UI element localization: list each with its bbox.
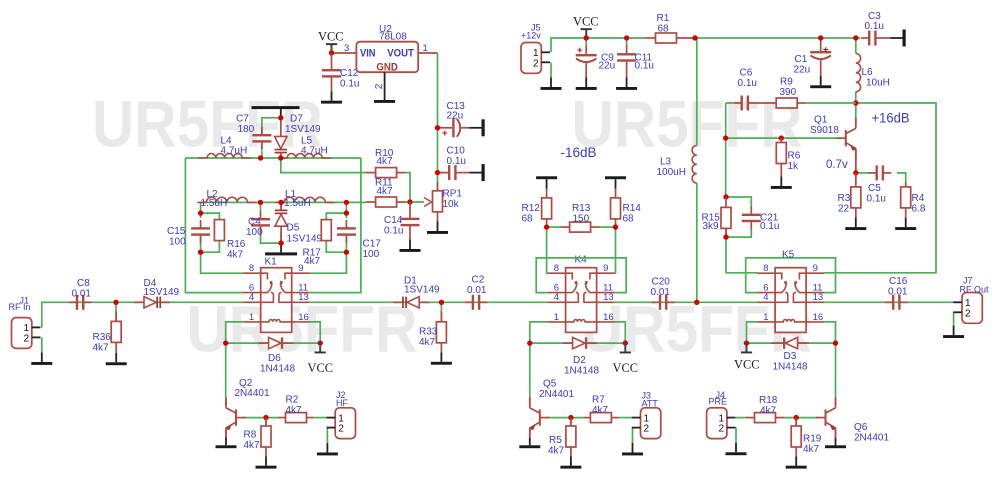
junction node C1 rail: [818, 35, 823, 40]
svg-text:C16: C16: [889, 276, 908, 287]
svg-text:HF: HF: [336, 398, 348, 408]
wire J5 pin1 to rail: [551, 38, 645, 52]
vcc symbol top rail: [573, 14, 599, 39]
ground J3 pin2: [622, 443, 643, 455]
wire J4 pin1 to R18: [736, 417, 746, 419]
svg-text:10k: 10k: [443, 199, 460, 210]
svg-text:Q6: Q6: [854, 422, 868, 433]
svg-text:+: +: [823, 44, 829, 55]
inductor L4 4.7uH: [198, 136, 251, 158]
svg-text:Q5: Q5: [543, 379, 557, 390]
svg-text:S9018: S9018: [810, 125, 839, 136]
svg-text:+12v: +12v: [521, 31, 541, 41]
ground J2 pin2: [317, 443, 338, 455]
svg-text:D2: D2: [573, 355, 586, 366]
connector J7 RF Out: [953, 276, 989, 324]
svg-text:R12: R12: [522, 203, 541, 214]
wire U2 pin3: [334, 52, 356, 54]
svg-text:4k7: 4k7: [548, 446, 565, 457]
transistor Q2 2N4401: [225, 378, 270, 439]
ground R12 top: [536, 176, 557, 188]
svg-text:K5: K5: [782, 250, 795, 261]
capacitor C1 22u polarized: [794, 38, 832, 76]
svg-text:VCC: VCC: [318, 29, 344, 44]
svg-text:R6: R6: [788, 151, 801, 162]
svg-text:1.5uH: 1.5uH: [284, 198, 311, 209]
svg-text:10uH: 10uH: [866, 78, 890, 89]
wire U2 pin1: [418, 52, 437, 54]
svg-text:D7: D7: [290, 114, 303, 125]
wire C6 left corner down the base column: [726, 103, 733, 197]
svg-text:C17: C17: [363, 238, 382, 249]
svg-text:4k7: 4k7: [803, 444, 820, 455]
wire L6 bottom to amp rail: [855, 92, 857, 104]
ground R36: [106, 353, 127, 365]
capacitor C2 0.01: [465, 275, 488, 310]
svg-text:0.1u: 0.1u: [340, 78, 359, 89]
junction node Q6 base R19: [794, 415, 799, 420]
resistor R16 4k7: [214, 220, 245, 261]
junction node L4 C7 rail: [258, 155, 263, 160]
capacitor C5 0.1u: [867, 165, 892, 204]
junction node R10 R11 RP1: [407, 199, 412, 204]
capacitor C16 0.01: [885, 276, 908, 310]
capacitor C4 100: [246, 211, 270, 238]
junction node L6 bottom amp rail: [853, 100, 858, 105]
capacitor C3 0.1u: [861, 11, 891, 46]
svg-text:R13: R13: [572, 203, 591, 214]
ground J1 pin2: [31, 353, 52, 365]
wire L3 bottom to main line: [696, 183, 698, 302]
svg-text:100: 100: [363, 249, 380, 260]
svg-text:4k7: 4k7: [592, 405, 609, 416]
svg-text:R7: R7: [592, 394, 605, 405]
junction node R14 R13: [613, 224, 618, 229]
svg-text:390: 390: [780, 87, 797, 98]
IC U2 78L08: [356, 24, 418, 74]
svg-text:D6: D6: [268, 353, 281, 364]
wire U2 out vertical: [437, 53, 439, 191]
svg-text:1k: 1k: [788, 161, 800, 172]
svg-text:2N4401: 2N4401: [235, 388, 270, 399]
capacitor C15 100: [167, 220, 210, 247]
ground C11: [616, 78, 637, 90]
resistor R4 6.8: [901, 182, 926, 218]
wire main RF line J1 to K1: [42, 302, 243, 327]
connector J5 +12v: [521, 22, 550, 73]
wire K5 bypass loop pin6 to pin11: [746, 258, 836, 293]
svg-text:1N4148: 1N4148: [773, 361, 808, 372]
inductor L6 10uH vertical: [856, 54, 890, 92]
svg-text:C14: C14: [384, 215, 403, 226]
wire C7 top: [262, 118, 281, 135]
junction node Q2 base R8: [263, 415, 268, 420]
wire R1 junction down to L3: [696, 38, 698, 146]
svg-text:22u: 22u: [599, 61, 616, 72]
svg-text:0.1u: 0.1u: [447, 156, 466, 167]
svg-text:0.7v: 0.7v: [826, 159, 848, 171]
capacitor C7 180: [236, 114, 271, 150]
svg-text:-16dB: -16dB: [561, 144, 597, 160]
ground C13 right: [470, 119, 485, 136]
wire Q6 collector: [835, 343, 837, 398]
wire C10 to RP1 node handled above: [437, 211, 439, 213]
svg-text:4.7uH: 4.7uH: [301, 146, 328, 157]
svg-text:1N4148: 1N4148: [564, 365, 599, 376]
capacitor C13 22u polarized: [438, 101, 470, 139]
wire R15 C21 node bottom: [726, 229, 751, 237]
capacitor C6 0.1u: [733, 68, 757, 111]
wire R19 top: [795, 418, 797, 427]
svg-text:R19: R19: [803, 434, 822, 445]
svg-text:PRE: PRE: [709, 397, 728, 407]
junction node D5 C4 bottom: [278, 240, 283, 245]
ground C12: [321, 91, 342, 103]
resistor R17 4k7: [303, 220, 332, 267]
wire R15 bottom to K5 pin8: [726, 237, 757, 273]
svg-text:UR5FFR: UR5FFR: [572, 87, 803, 161]
wire amp collector rail to K5 pin9: [824, 103, 936, 273]
junction node Q1 base tap: [723, 135, 728, 140]
ground R6: [771, 177, 792, 189]
diode D4 1SV149 varactor: [134, 278, 180, 308]
svg-text:0.01: 0.01: [467, 285, 487, 296]
svg-text:VCC: VCC: [308, 360, 334, 375]
wire R10 right to RP1 node: [406, 173, 411, 202]
wire C5 right corner to R4: [897, 173, 906, 182]
junction node C15 bottom: [198, 250, 203, 255]
transistor Q6 2N4401: [816, 398, 890, 444]
ground R3: [845, 218, 866, 230]
resistor R36 4k7: [93, 312, 122, 354]
wire Q2 base to R8 R2: [243, 417, 279, 419]
wire R36 junction: [115, 302, 117, 322]
svg-text:C4: C4: [248, 217, 261, 228]
ground C9: [576, 78, 597, 90]
svg-text:K4: K4: [575, 255, 588, 266]
svg-text:0.1u: 0.1u: [635, 61, 654, 72]
inductor L1 1.5uH: [275, 189, 334, 209]
svg-text:0.01: 0.01: [651, 287, 671, 298]
wire L6 top: [855, 38, 857, 54]
junction node C15 top: [198, 210, 203, 215]
svg-text:R3: R3: [838, 193, 851, 204]
relay K5: [757, 263, 824, 332]
junction node K4 pin1 Q5: [527, 340, 532, 345]
ground R8: [256, 456, 277, 468]
ground R33: [431, 352, 452, 364]
wire D6 line: [226, 342, 321, 344]
svg-text:1SV149: 1SV149: [287, 234, 323, 245]
svg-text:0.1u: 0.1u: [867, 193, 886, 204]
capacitor C11 0.1u: [617, 45, 654, 78]
diode D3 1N4148 left: [771, 337, 809, 372]
ground R5: [560, 456, 581, 468]
junction node R1 L3: [692, 35, 697, 40]
svg-text:R33: R33: [419, 327, 438, 338]
wire amp collector up: [855, 103, 857, 117]
wire R14 down to K4 pin9: [614, 227, 617, 273]
ground C1: [810, 76, 831, 88]
junction node L6 rail: [853, 35, 858, 40]
transistor Q5 2N4401: [529, 379, 574, 439]
junction node VCC C12: [329, 50, 334, 55]
junction node K5 pin1 VCC: [744, 340, 749, 345]
diode D6 1N4148: [259, 337, 296, 374]
svg-text:ATT: ATT: [642, 398, 659, 408]
svg-text:K1: K1: [265, 257, 278, 268]
ground U2: [374, 91, 395, 103]
svg-text:R1: R1: [657, 13, 670, 24]
svg-text:R14: R14: [623, 203, 642, 214]
wire emitter to C5: [856, 172, 869, 174]
svg-text:C6: C6: [740, 68, 753, 79]
svg-text:6.8: 6.8: [912, 204, 926, 215]
ground J5 pin2: [541, 78, 562, 90]
inductor L2 1.5uH: [197, 189, 256, 209]
junction node Q5 base R5: [568, 415, 573, 420]
svg-text:VCC: VCC: [613, 360, 639, 375]
svg-text:0.1u: 0.1u: [865, 21, 884, 32]
svg-text:0.1u: 0.1u: [384, 225, 403, 236]
junction node C17 rail: [344, 200, 349, 205]
svg-text:VCC: VCC: [573, 14, 599, 29]
wire U2 pin2 gnd: [374, 72, 385, 90]
wire R2 right to J2: [314, 417, 328, 419]
wire K5 pin16 down to D3 Q6: [824, 322, 835, 343]
resistor R33 4k7: [419, 312, 446, 353]
junction node R36 main line: [113, 300, 118, 305]
wire C7 bottom: [261, 151, 263, 159]
ground J7 pin2: [943, 326, 964, 338]
svg-text:C15: C15: [167, 226, 186, 237]
junction node R6 base: [779, 135, 784, 140]
ground C10 right: [470, 164, 485, 181]
wire main RF line K1 to K4: [310, 301, 548, 303]
wire K4 pin16 down to VCC D2: [615, 322, 626, 343]
resistor R3 22: [838, 173, 861, 218]
diode D5 1SV149 varactor vertical up: [275, 202, 323, 244]
transistor Q1 S9018: [810, 115, 857, 173]
svg-text:1: 1: [423, 43, 428, 54]
svg-text:+16dB: +16dB: [872, 109, 910, 125]
junction node C10: [435, 170, 440, 175]
svg-text:100: 100: [169, 236, 186, 247]
svg-text:4k7: 4k7: [93, 342, 110, 353]
wire C4 column: [261, 202, 282, 243]
wire C15 R16 column: [201, 202, 220, 252]
wire J1 pin2 to ground: [41, 337, 43, 352]
svg-text:4k7: 4k7: [244, 440, 261, 451]
junction node D7 L5 rail: [278, 155, 283, 160]
svg-text:78L08: 78L08: [379, 32, 407, 43]
capacitor C14 0.1u: [384, 202, 420, 240]
inductor L3 100uH vertical: [657, 146, 697, 184]
resistor R19 4k7: [791, 418, 822, 457]
connector J2 HF: [327, 390, 356, 439]
inductor L5 4.7uH: [278, 136, 331, 158]
wire Q5 collector: [529, 343, 531, 398]
junction node L3 main line: [694, 300, 699, 305]
resistor R9 390: [756, 76, 856, 108]
svg-text:GND: GND: [376, 62, 398, 74]
resistor R10 4k7: [366, 148, 406, 178]
resistor R12 68: [522, 189, 552, 228]
wire VCC reg input: [334, 52, 337, 54]
svg-text:22: 22: [838, 204, 850, 215]
resistor R14 68: [611, 189, 642, 228]
svg-text:68: 68: [522, 213, 534, 224]
wire R18 right to Q6 base: [785, 417, 819, 419]
wire Q1 emitter down: [855, 151, 857, 182]
junction node R15 top: [723, 194, 728, 199]
svg-text:R16: R16: [227, 239, 246, 250]
svg-text:RF In: RF In: [9, 302, 31, 312]
svg-text:68: 68: [623, 213, 635, 224]
wire R7 right to J3: [619, 417, 633, 419]
wire Q5 base to R5 R7: [547, 417, 584, 419]
svg-text:1N4148: 1N4148: [260, 363, 295, 374]
relay K1: [243, 263, 310, 332]
wire tank bottom right to K1 pin9: [310, 252, 347, 273]
svg-text:0.01: 0.01: [72, 289, 92, 300]
svg-text:1SV149: 1SV149: [404, 285, 440, 296]
wire C17 R17 column: [326, 202, 346, 252]
wire R12 down to K4 pin8: [547, 227, 548, 273]
junction node R15 bottom: [723, 234, 728, 239]
capacitor C9 22u polarized: [576, 45, 615, 78]
wire K1 pin16 down to VCC D6: [310, 322, 321, 343]
wire R1 right to C1 C3 rail: [695, 37, 860, 39]
ground Q5 emitter: [519, 438, 540, 448]
svg-text:R18: R18: [759, 395, 778, 406]
svg-text:D3: D3: [784, 351, 797, 362]
junction node C17 top: [344, 210, 349, 215]
diode D1 1SV149 varactor left: [393, 275, 440, 308]
vcc symbol at D6: [308, 343, 334, 375]
relay K4: [548, 263, 615, 332]
svg-text:VIN: VIN: [360, 48, 376, 60]
svg-text:1.5uH: 1.5uH: [201, 198, 228, 209]
svg-text:100: 100: [246, 227, 263, 238]
resistor R7 4k7: [583, 394, 618, 422]
wire K5 pin1 down to VCC D3: [747, 322, 758, 343]
svg-text:C20: C20: [652, 277, 671, 288]
junction node C7 D7 top: [278, 115, 283, 120]
svg-text:R2: R2: [286, 394, 299, 405]
resistor R11 4k7: [366, 178, 406, 207]
svg-text:VCC: VCC: [734, 357, 760, 372]
junction node R12 R13: [544, 224, 549, 229]
junction node VCC rail: [584, 35, 589, 40]
svg-text:4k7: 4k7: [377, 156, 394, 167]
vcc symbol U2 input: [318, 29, 344, 54]
svg-text:2N4401: 2N4401: [539, 389, 574, 400]
svg-text:2N4401: 2N4401: [854, 433, 889, 444]
svg-text:R5: R5: [549, 435, 562, 446]
ground J4 pin2: [726, 443, 747, 455]
wire R8 top: [265, 418, 267, 427]
ground Q2 emitter: [216, 438, 237, 448]
svg-text:4k7: 4k7: [304, 256, 321, 267]
ground R14 top: [605, 176, 626, 188]
wire middle rail to R11 right: [406, 201, 425, 203]
svg-text:22u: 22u: [794, 64, 811, 75]
ground R4: [895, 218, 916, 230]
wire D2 line: [530, 342, 626, 344]
ground R19: [786, 456, 807, 468]
wire tank upper right vertical to K1 pin11: [310, 158, 361, 293]
svg-text:4k7: 4k7: [377, 186, 394, 197]
svg-text:VOUT: VOUT: [387, 48, 414, 60]
svg-text:180: 180: [238, 124, 255, 135]
junction node D5 rail: [278, 200, 283, 205]
wire K4 pin1 down to D2: [530, 322, 548, 343]
junction node C4 rail: [258, 200, 263, 205]
svg-text:1SV149: 1SV149: [144, 287, 180, 298]
wire R6 top: [780, 138, 782, 142]
junction node D1 R33: [439, 300, 444, 305]
potentiometer RP1 10k: [424, 182, 462, 222]
svg-text:C10: C10: [447, 145, 466, 156]
wire tank input vertical to K1 pin6: [185, 158, 242, 293]
ground C3 right: [891, 30, 906, 47]
svg-text:4k7: 4k7: [286, 405, 303, 416]
diode D7 1SV149 varactor vertical: [275, 114, 321, 158]
wire K4 bypass loop pin6 to pin11: [536, 258, 626, 293]
connector J3 ATT: [632, 391, 661, 439]
svg-text:C8: C8: [77, 278, 90, 289]
wire K1 pin1 down to D6: [226, 322, 243, 343]
resistor R13 150: [547, 203, 616, 232]
svg-text:C2: C2: [472, 275, 485, 286]
wire C9 C11 grounds red upper leads: [586, 38, 626, 45]
svg-text:0.1u: 0.1u: [738, 78, 757, 89]
wire R5 top: [570, 418, 572, 427]
junction node K4 pin16 VCC: [623, 340, 628, 345]
wire J2 pin2 to ground: [326, 427, 328, 443]
wire Q2 collector: [225, 343, 227, 398]
resistor R6 1k: [776, 138, 800, 176]
wire main RF line K4 to K5: [615, 301, 758, 303]
svg-text:R8: R8: [244, 430, 257, 441]
svg-text:100uH: 100uH: [657, 167, 686, 178]
wire J7 pin2 to ground: [953, 312, 955, 326]
svg-text:L6: L6: [862, 67, 874, 78]
wire R33 junction: [440, 302, 442, 322]
svg-text:150: 150: [573, 213, 590, 224]
junction node Q1 emitter: [853, 170, 858, 175]
svg-text:C5: C5: [868, 183, 881, 194]
wire R15 C21 node top: [726, 197, 751, 207]
resistor R2 4k7: [279, 394, 314, 422]
svg-text:1SV149: 1SV149: [285, 124, 321, 135]
svg-text:0.01: 0.01: [888, 287, 908, 298]
resistor R15 3k9: [702, 197, 732, 237]
svg-text:C7: C7: [236, 114, 249, 125]
svg-text:R4: R4: [912, 193, 925, 204]
capacitor C21 0.1u: [742, 206, 780, 232]
wire J5 pin2 down: [550, 62, 552, 77]
svg-text:0.1u: 0.1u: [760, 221, 779, 232]
svg-text:R36: R36: [93, 332, 112, 343]
capacitor C12 0.1u: [322, 53, 359, 91]
wire D3 line: [747, 342, 836, 344]
wire tank upper rail: [185, 157, 361, 159]
wire main RF line K5 to J7: [824, 301, 954, 303]
wire J4 pin2 to ground: [735, 427, 737, 442]
wire middle rail left: [201, 201, 366, 203]
